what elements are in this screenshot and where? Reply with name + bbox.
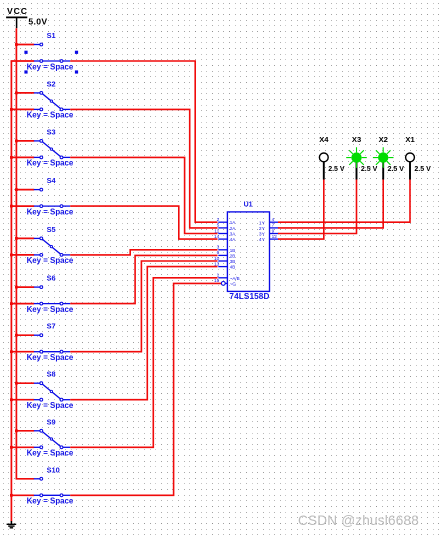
svg-text:2.5 V: 2.5 V [414, 166, 431, 173]
svg-text:Key = Space: Key = Space [27, 62, 74, 71]
svg-text:2: 2 [217, 217, 220, 223]
svg-text:3B: 3B [230, 259, 236, 264]
svg-text:2.5 V: 2.5 V [388, 166, 405, 173]
svg-text:Key = Space: Key = Space [27, 305, 74, 314]
svg-text:7: 7 [272, 223, 275, 229]
svg-text:Key = Space: Key = Space [27, 449, 74, 458]
svg-text:S4: S4 [47, 176, 57, 185]
svg-text:74LS158D: 74LS158D [229, 292, 269, 301]
svg-text:S2: S2 [47, 79, 56, 88]
svg-text:1B: 1B [230, 248, 236, 253]
svg-text:12: 12 [272, 234, 278, 240]
svg-text:3A: 3A [230, 232, 236, 237]
svg-text:1Y: 1Y [259, 220, 266, 226]
svg-text:2.5 V: 2.5 V [361, 166, 378, 173]
svg-text:14: 14 [214, 234, 220, 240]
svg-text:3Y: 3Y [259, 232, 266, 238]
svg-text:5.0V: 5.0V [28, 17, 47, 27]
svg-text:2Y: 2Y [259, 226, 266, 232]
svg-text:6: 6 [217, 250, 220, 256]
svg-text:Key = Space: Key = Space [27, 401, 74, 410]
svg-text:4A: 4A [230, 237, 236, 242]
svg-text:Key = Space: Key = Space [27, 159, 74, 168]
svg-text:VCC: VCC [7, 6, 28, 16]
svg-text:X4: X4 [319, 135, 329, 144]
svg-text:2A: 2A [230, 226, 236, 231]
svg-text:4B: 4B [230, 265, 236, 270]
svg-text:Key = Space: Key = Space [27, 111, 74, 120]
svg-text:Key = Space: Key = Space [27, 497, 74, 506]
svg-text:Key = Space: Key = Space [27, 207, 74, 216]
svg-text:2B: 2B [230, 253, 236, 258]
svg-text:Key = Space: Key = Space [27, 256, 74, 265]
svg-text:13: 13 [214, 261, 220, 267]
svg-text:1: 1 [217, 273, 220, 279]
svg-text:Key = Space: Key = Space [27, 353, 74, 362]
svg-text:2.5 V: 2.5 V [328, 166, 345, 173]
svg-text:1A: 1A [230, 220, 236, 225]
svg-text:S9: S9 [47, 417, 56, 426]
svg-text:X1: X1 [405, 135, 415, 144]
svg-text:11: 11 [214, 228, 219, 234]
svg-text:~A/B: ~A/B [230, 276, 240, 281]
svg-text:4Y: 4Y [259, 237, 266, 243]
svg-text:10: 10 [214, 256, 220, 262]
svg-text:X2: X2 [379, 135, 388, 144]
svg-text:5: 5 [217, 223, 220, 229]
svg-text:CSDN @zhusl6688: CSDN @zhusl6688 [298, 513, 419, 528]
svg-text:4: 4 [272, 217, 275, 223]
svg-text:15: 15 [214, 278, 220, 284]
svg-text:~G: ~G [230, 281, 237, 286]
svg-text:9: 9 [272, 228, 275, 234]
svg-text:S3: S3 [47, 127, 56, 136]
svg-text:S6: S6 [47, 274, 56, 283]
svg-text:S1: S1 [47, 31, 56, 40]
svg-text:S8: S8 [47, 370, 56, 379]
svg-text:X3: X3 [352, 135, 361, 144]
svg-text:S10: S10 [47, 465, 60, 474]
svg-text:3: 3 [217, 245, 220, 251]
svg-text:S5: S5 [47, 225, 56, 234]
svg-text:U1: U1 [244, 202, 253, 209]
svg-text:S7: S7 [47, 322, 56, 331]
